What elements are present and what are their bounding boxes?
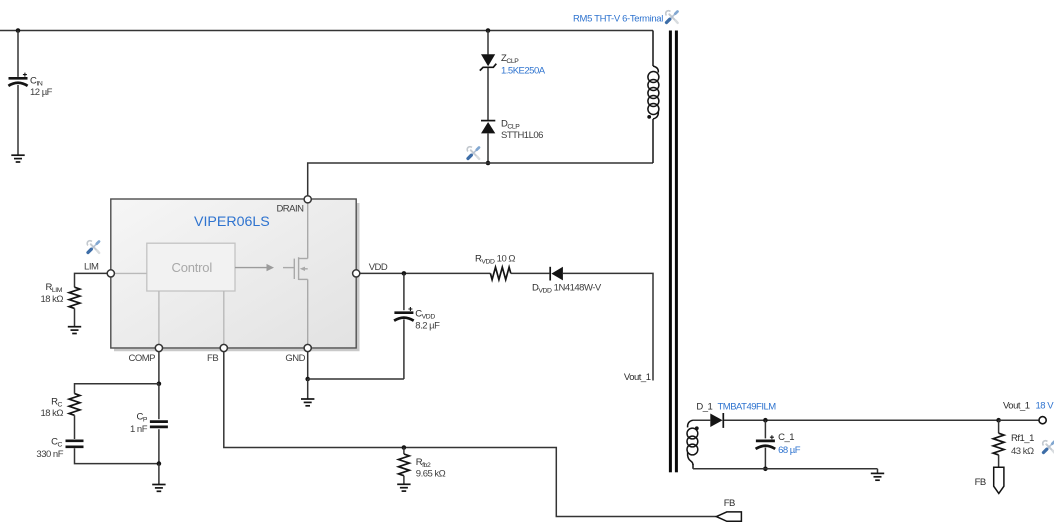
svg-text:18 kΩ: 18 kΩ (40, 294, 63, 305)
node junction vdd (402, 271, 407, 276)
capacitor CVDD (394, 307, 414, 321)
internal stub LIM to control (114, 272, 147, 274)
wire C1 bottom (764, 448, 766, 469)
wire Rf1 to flag (998, 455, 1000, 467)
wire RLIM to gnd (74, 308, 76, 326)
diode ZCLP TVS (480, 54, 497, 70)
svg-text:18 kΩ: 18 kΩ (40, 408, 63, 419)
wire cvdd top (403, 273, 405, 310)
node junction comp bottom (157, 461, 162, 466)
flag FB bottom (716, 512, 741, 521)
node junction clamp bottom (486, 161, 491, 166)
wire secondary top (693, 419, 710, 421)
node junction C1 bottom (763, 467, 768, 472)
ground RLIM (68, 327, 81, 334)
ground comp (152, 485, 165, 492)
internal arrow control to gate (235, 264, 274, 271)
wire sec gnd stub (877, 469, 879, 473)
wire gnd stub (307, 379, 309, 399)
node junction rfb2 (402, 445, 407, 450)
transformer T1 core (669, 31, 678, 473)
svg-text:DCLP: DCLP (501, 119, 520, 131)
wire top rail (0, 30, 653, 32)
svg-text:D_1: D_1 (696, 401, 712, 412)
svg-text:RVDD 10 Ω: RVDD 10 Ω (475, 253, 515, 265)
ground Cin (11, 155, 24, 162)
control block (147, 243, 235, 291)
inductor secondary winding (687, 420, 698, 469)
terminal Vout_1 circle (1039, 417, 1046, 424)
wire drain rail (308, 163, 653, 195)
resistor RC (69, 394, 80, 416)
node junction clamp top (486, 28, 491, 33)
icon tools transformer (666, 11, 678, 23)
svg-text:RLIM: RLIM (45, 282, 62, 294)
wire CP top (158, 384, 160, 419)
wire clamp lower (487, 133, 489, 163)
svg-text:CVDD: CVDD (415, 308, 435, 320)
wire rvdd to dvdd (511, 272, 550, 274)
svg-text:FB: FB (975, 477, 986, 488)
pin GND circle (304, 344, 311, 351)
icon tools viper (87, 241, 99, 253)
svg-text:CP: CP (136, 411, 147, 423)
diode D_1 (710, 413, 723, 428)
svg-text:1 nF: 1 nF (130, 424, 148, 435)
ground rfb2 (397, 484, 410, 491)
icon tools rf1 (1043, 441, 1054, 453)
svg-text:LIM: LIM (84, 262, 99, 273)
wire secondary bottom rail (693, 468, 878, 470)
inductor primary winding (648, 31, 659, 164)
wire gnd to cvdd (308, 378, 404, 380)
wire Cin branch upper (17, 31, 19, 77)
wire clamp mid (487, 68, 489, 120)
resistor RLIM (69, 287, 80, 308)
wire to output terminal (999, 419, 1039, 421)
svg-text:TMBAT49FILM: TMBAT49FILM (718, 401, 777, 412)
icon tools clamp (467, 147, 479, 159)
svg-text:9.65 kΩ: 9.65 kΩ (416, 469, 446, 480)
svg-text:FB: FB (724, 498, 735, 509)
svg-text:RM5 THT-V 6-Terminal: RM5 THT-V 6-Terminal (573, 13, 663, 24)
wire GND pin down (307, 352, 309, 379)
svg-text:CIN: CIN (30, 76, 43, 88)
wire CC to bottom (75, 448, 159, 463)
internal stub FB (223, 291, 225, 345)
secondary phase dot (695, 426, 699, 430)
svg-text:CC: CC (51, 436, 62, 448)
mosfet internal (283, 203, 308, 345)
wire secondary out rail (724, 419, 999, 421)
resistor Rf1_1 (993, 433, 1004, 455)
wire dvdd to vout1 (563, 273, 653, 380)
node junction gnd (305, 377, 310, 382)
svg-text:C_1: C_1 (778, 432, 794, 443)
wire FB pin down (224, 352, 717, 517)
wire Rf1 lead (998, 420, 1000, 433)
svg-text:43 kΩ: 43 kΩ (1011, 446, 1034, 457)
svg-text:Control: Control (172, 260, 213, 275)
pin COMP circle (155, 344, 162, 351)
svg-text:12 µF: 12 µF (30, 87, 53, 98)
primary phase dot (647, 115, 651, 119)
internal stub COMP (158, 291, 160, 345)
node junction C1 top (763, 418, 768, 423)
ground ic (301, 399, 314, 406)
capacitor CC (66, 441, 84, 447)
svg-text:330 nF: 330 nF (36, 449, 63, 460)
diode DCLP (481, 121, 495, 134)
wire rfb2 gnd stub (403, 476, 405, 484)
svg-text:VIPER06LS: VIPER06LS (194, 214, 270, 230)
wire Cin branch lower (17, 85, 19, 155)
svg-text:Rf1_1: Rf1_1 (1011, 433, 1034, 444)
svg-text:1.5KE250A: 1.5KE250A (501, 65, 546, 76)
diode DVDD (550, 267, 563, 281)
svg-text:8.2 µF: 8.2 µF (415, 320, 440, 331)
pin VDD circle (353, 270, 360, 277)
svg-text:COMP: COMP (129, 353, 156, 364)
wire cvdd bottom (403, 319, 405, 379)
svg-text:STTH1L06: STTH1L06 (501, 130, 543, 141)
node junction Rf1 (996, 418, 1001, 423)
wire CP bottom (158, 429, 160, 463)
wire COMP down (158, 352, 160, 384)
svg-text:Rfb2: Rfb2 (416, 457, 431, 469)
IC U1 VIPER06LS box (111, 199, 358, 350)
node junction Cin top (16, 28, 21, 33)
resistor Rfb2 (399, 454, 410, 476)
wire LIM branch (75, 273, 108, 287)
svg-text:ZCLP: ZCLP (501, 53, 519, 65)
wire clamp upper (487, 31, 489, 55)
wire comp gnd stub (158, 464, 160, 485)
svg-text:DRAIN: DRAIN (276, 203, 304, 214)
wire C1 top (764, 420, 766, 438)
svg-text:18 V: 18 V (1036, 400, 1054, 411)
capacitor CIN (8, 73, 27, 86)
wire rfb2 lead (403, 448, 405, 455)
capacitor C_1 (756, 435, 776, 449)
wire comp branch top (75, 384, 159, 394)
svg-text:GND: GND (285, 353, 305, 364)
resistor RVDD (490, 267, 510, 279)
svg-text:VDD: VDD (369, 262, 388, 273)
pin LIM circle (107, 270, 114, 277)
svg-text:Vout_1: Vout_1 (1003, 400, 1030, 411)
svg-text:Vout_1: Vout_1 (624, 372, 651, 383)
svg-text:FB: FB (207, 353, 218, 364)
node junction comp top (157, 382, 162, 387)
capacitor CP (150, 422, 168, 427)
ground secondary (871, 473, 884, 480)
wire RC to CC (74, 415, 76, 439)
svg-text:RC: RC (51, 396, 62, 408)
flag FB right (994, 467, 1004, 493)
svg-text:68 µF: 68 µF (778, 445, 801, 456)
pin DRAIN circle (304, 196, 311, 203)
svg-text:DVDD 1N4148W-V: DVDD 1N4148W-V (532, 282, 602, 294)
wire VDD rail (360, 272, 491, 274)
pin FB circle (220, 344, 227, 351)
